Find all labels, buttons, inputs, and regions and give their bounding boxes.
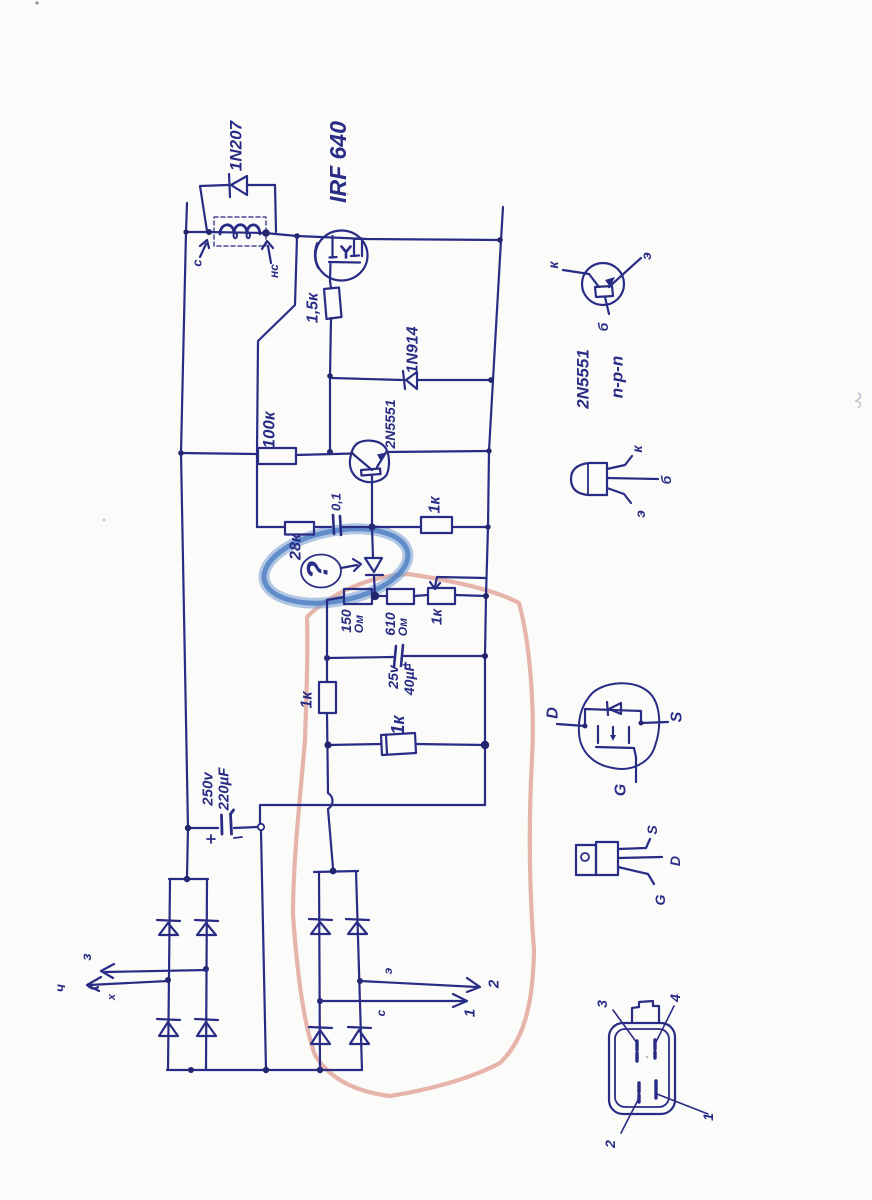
svg-text:2: 2	[486, 979, 503, 989]
resistor R 28k	[285, 522, 314, 535]
mosfet Q1 IRF640	[316, 231, 368, 281]
node B1 tap left	[165, 977, 171, 983]
node B2 tap left	[317, 998, 323, 1004]
diode B1 LR	[195, 1019, 218, 1036]
resistor R 610	[387, 589, 414, 604]
node cap row rail	[482, 653, 488, 659]
package TO-92	[571, 463, 607, 495]
svg-text:Ом: Ом	[352, 615, 366, 633]
label c with arrow	[200, 240, 209, 257]
svg-text:250v: 250v	[200, 771, 217, 807]
node top-left corner	[183, 229, 188, 234]
node coil left	[206, 229, 212, 235]
resistor R 1k row527	[421, 517, 452, 533]
wire AC line z	[101, 964, 207, 978]
wire minus drop to bottom	[261, 831, 266, 1070]
node rail y451	[486, 448, 491, 453]
svg-text:2N5551: 2N5551	[382, 399, 398, 449]
svg-text:э: э	[381, 967, 395, 974]
svg-text:х: х	[106, 993, 118, 1001]
wire cap row y656	[327, 657, 393, 658]
svg-text:n-p-n: n-p-n	[608, 356, 627, 398]
node 1k row left	[324, 741, 331, 748]
svg-text:1: 1	[462, 1009, 479, 1017]
trimmer R 1k	[428, 588, 455, 604]
node 1N914 right	[488, 377, 494, 383]
node bridge2 top	[330, 868, 337, 875]
transformer winding L1	[214, 217, 266, 246]
wire left rail	[181, 203, 188, 877]
pin 2	[637, 1083, 640, 1102]
svg-text:1: 1	[700, 1113, 716, 1121]
svg-text:1,5к: 1,5к	[305, 292, 322, 323]
node bottom minus	[263, 1067, 269, 1073]
faint note mark right edge	[856, 393, 861, 408]
wire 1N207 loop	[200, 185, 228, 231]
node bridge1 top	[184, 876, 190, 882]
node coil right	[262, 229, 270, 237]
pin 1	[654, 1081, 657, 1098]
wire 28k row y527	[257, 526, 284, 528]
resistor R 1k vertical	[319, 682, 336, 713]
svg-text:D: D	[667, 856, 683, 866]
node cap row left	[324, 655, 330, 661]
wire 1k row y745	[328, 744, 381, 745]
diode D3 questioned	[372, 527, 373, 557]
wire gate to node	[330, 318, 331, 452]
capacitor C 40uF	[394, 645, 403, 667]
svg-text:б: б	[595, 322, 611, 331]
svg-text:б: б	[658, 475, 674, 484]
node rail y527	[485, 524, 490, 529]
svg-text:Ом: Ом	[396, 618, 410, 636]
wire amp to bridge2	[332, 868, 334, 871]
node 1.5k bottom	[327, 373, 333, 379]
wire output 1	[320, 994, 467, 1007]
svg-text:S: S	[644, 825, 660, 835]
wire hop over y805	[328, 793, 333, 809]
wire gate feedback branch	[257, 237, 297, 527]
svg-text:э: э	[638, 252, 654, 260]
transistor Q2 2N5551	[350, 441, 389, 483]
node gate branch	[294, 233, 300, 239]
resistor R 1,5k	[330, 281, 331, 288]
node B2 tap right	[357, 978, 363, 984]
question arrow	[341, 559, 361, 571]
node ref S	[639, 721, 644, 726]
cap minus sign	[234, 837, 242, 838]
svg-text:G: G	[613, 784, 630, 796]
svg-text:2N5551: 2N5551	[574, 349, 593, 410]
svg-text:э: э	[632, 510, 648, 518]
wire output 2	[360, 978, 480, 992]
diode B2 LR	[348, 1027, 371, 1044]
svg-text:IRF 640: IRF 640	[325, 121, 351, 203]
diode ref body	[607, 702, 621, 715]
resistor R 1k row745	[381, 733, 416, 755]
pin label lines	[613, 1010, 637, 1043]
resistor R 150	[344, 589, 372, 604]
connector lamp socket	[609, 1023, 675, 1114]
wire 150 row y596	[327, 597, 344, 600]
mosfet ref IRF640 symbol	[579, 683, 659, 769]
svg-text:к: к	[629, 445, 645, 453]
resistor R 100k	[258, 448, 296, 464]
question circle	[301, 555, 341, 588]
wire base row y453	[181, 453, 257, 454]
wire right rail top stub	[501, 207, 503, 240]
capacitor C 220uF row	[188, 827, 218, 829]
svg-text:S: S	[669, 711, 686, 722]
svg-text:0,1: 0,1	[329, 493, 344, 511]
node cap220 rail	[185, 825, 191, 831]
cap plus sign	[207, 835, 215, 843]
node top right	[497, 237, 503, 243]
pin 3	[635, 1041, 638, 1061]
svg-text:нс: нс	[267, 264, 281, 278]
diode B1 UL	[157, 920, 180, 935]
bridge B2 frame	[314, 871, 358, 872]
wire right rail	[485, 240, 501, 805]
svg-text:100к: 100к	[260, 410, 279, 448]
svg-text:1к: 1к	[429, 608, 446, 625]
node bottom b1	[188, 1067, 194, 1073]
svg-text:1к: 1к	[427, 496, 444, 514]
package TO-220	[576, 845, 596, 875]
svg-text:3: 3	[594, 1000, 610, 1008]
node bottom b2	[317, 1067, 323, 1073]
svg-text:4: 4	[667, 994, 683, 1003]
svg-text:з: з	[78, 953, 94, 960]
svg-text:с: с	[374, 1009, 388, 1016]
svg-text:с: с	[190, 259, 205, 267]
svg-text:40µF: 40µF	[401, 662, 417, 696]
diode B1 LL	[157, 1019, 180, 1036]
node base junction	[369, 524, 376, 531]
node rail y596	[483, 593, 489, 599]
wire top bus	[186, 232, 500, 240]
wire amp left vertical	[326, 600, 328, 682]
terminal open circle	[258, 824, 264, 830]
svg-text:220µF: 220µF	[216, 767, 233, 812]
wire 1N914 row	[332, 378, 491, 380]
node ref D	[583, 724, 588, 729]
diode B2 UL	[309, 919, 332, 934]
svg-text:D: D	[545, 707, 562, 719]
svg-text:1к: 1к	[299, 691, 316, 709]
node base row	[327, 449, 333, 455]
svg-text:1N914: 1N914	[405, 326, 422, 373]
pink highlighter loop	[293, 574, 534, 1096]
svg-text:к: к	[545, 261, 561, 269]
node diode bottom	[371, 592, 379, 600]
svg-text:1к: 1к	[388, 715, 408, 735]
diode 1N207	[229, 174, 247, 197]
svg-text:ч: ч	[52, 984, 68, 992]
node left rail y453	[178, 450, 184, 456]
diode B1 UR	[195, 920, 218, 935]
capacitor C 0,1	[333, 515, 341, 535]
diode B2 UR	[346, 919, 369, 934]
svg-text:2: 2	[602, 1140, 618, 1149]
trimmer wiper arrow	[435, 577, 486, 587]
wire AC line ch	[87, 977, 168, 991]
diode B2 LL	[309, 1027, 332, 1044]
bridge B1 frame	[169, 878, 208, 880]
node B1 tap right	[203, 966, 209, 972]
pin 4	[653, 1040, 656, 1058]
transistor ref 2N5551 symbol	[582, 263, 624, 305]
svg-text:G: G	[652, 894, 668, 905]
svg-text:?: ?	[302, 561, 335, 579]
diode D2 1N914	[403, 371, 417, 389]
wire bottom bus	[167, 1069, 362, 1071]
blue marker oval	[258, 518, 415, 615]
svg-text:1N207: 1N207	[227, 119, 246, 171]
wire minus bus y805	[260, 805, 485, 823]
label nc arrow	[262, 241, 273, 263]
svg-text:28к: 28к	[288, 533, 305, 561]
node 1k row rail	[481, 741, 489, 749]
